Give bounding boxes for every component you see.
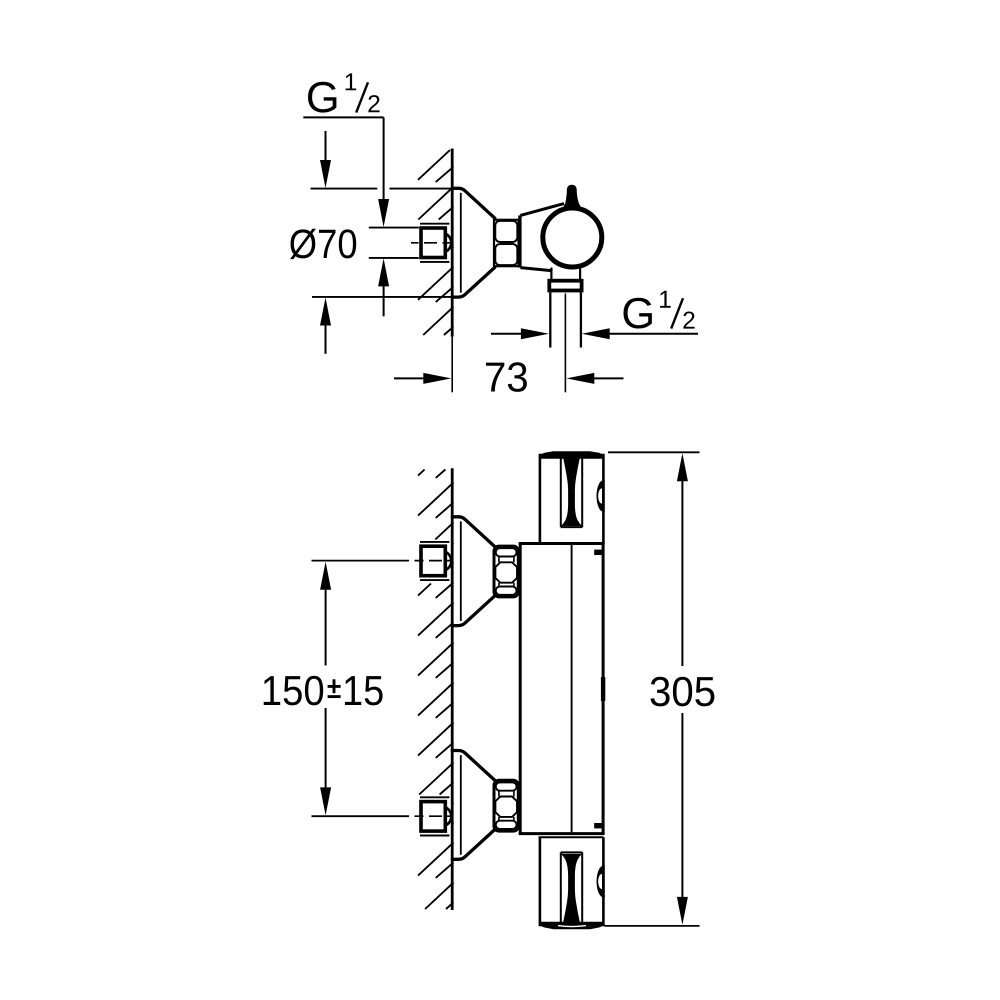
thermostat body right edge: [602, 544, 605, 834]
union fitting rounded end arc: [445, 234, 451, 252]
knob lever pin: [562, 185, 581, 208]
body front edge inner line: [571, 545, 573, 832]
lower union dashed centerline/extension: [312, 815, 410, 817]
dimension 150±15 arrow up: [320, 562, 331, 590]
thermostat body top edge: [519, 542, 605, 545]
hex nut (top view) outline: [494, 220, 519, 266]
upper union dashed centerline/extension: [312, 560, 410, 562]
union fitting rounded end arc: [445, 807, 451, 825]
dimension 305 extension bottom: [605, 925, 700, 927]
wall union square fitting body: [421, 546, 445, 576]
body screw mark upper: [594, 550, 602, 555]
union hex nut outline: [494, 780, 518, 831]
Ø70 arrow up: [320, 298, 331, 326]
text 73: [486, 362, 527, 392]
hex nut facet connectors: [498, 791, 500, 797]
hex nut facet upper: [495, 221, 517, 242]
union washer edge top: [420, 223, 449, 225]
escutcheon cone outline: [452, 188, 495, 297]
union extension line top: [369, 227, 419, 229]
text 150±15: [264, 676, 324, 706]
escutcheon cone outline: [452, 517, 495, 626]
wall edge line (bottom view): [451, 468, 454, 910]
dimension 73 right arrow: [566, 373, 594, 384]
G1/2 leader arrow down to union top: [378, 199, 389, 227]
thermostat body left edge: [519, 544, 522, 834]
wall edge thin extension down to 73-dimension: [451, 337, 453, 393]
flow handle top edge: [539, 836, 604, 838]
union washer edge bottom: [420, 261, 449, 263]
wall union square fitting body: [421, 802, 445, 832]
hex nut bottom chamfer band: [496, 587, 517, 595]
outlet neck right: [579, 268, 581, 280]
hex nut top chamfer band: [496, 782, 517, 790]
valve body top edge: [520, 204, 564, 216]
union washer edge bottom: [420, 835, 449, 837]
temperature handle groove bottom: [561, 526, 582, 528]
outlet flange: [549, 281, 581, 291]
dimension Ø70 extension line bottom: [312, 296, 452, 298]
label G1/2 (outlet thread): [624, 298, 652, 329]
dimension 305 arrow down: [677, 897, 688, 925]
flow handle cap highlight: [558, 926, 586, 927]
handle side safety button: [597, 480, 604, 512]
flow handle grip blade: [561, 854, 583, 922]
plus-minus sign: [333, 679, 336, 693]
flow handle groove left: [560, 852, 562, 922]
flow handle groove right: [581, 852, 583, 922]
outlet pipe left edge: [549, 292, 551, 347]
Ø70 arrow down: [325, 131, 327, 161]
flow handle cap (black): [540, 922, 604, 930]
temperature handle grip blade: [561, 458, 583, 526]
outlet pipe centerline: [564, 294, 566, 393]
hex nut facet connectors: [498, 557, 500, 563]
G1/2 label underline: [303, 116, 383, 118]
dimension 73 line left + arrow: [394, 377, 424, 379]
union washer edge top: [420, 541, 449, 543]
valve body bottom edge: [520, 268, 552, 271]
hex nut bottom chamfer band: [496, 821, 517, 829]
G1/2 union bottom arrow up: [378, 258, 389, 286]
body outlet mark middle: [601, 677, 605, 701]
outlet pipe right edge: [580, 292, 582, 347]
flow handle outline (bottom): [540, 837, 604, 925]
hex nut middle facet: [495, 797, 517, 817]
handle side safety button: [597, 866, 604, 898]
thermostat body bottom edge: [519, 832, 605, 835]
dimension 305 arrow up: [677, 453, 688, 481]
hex nut facet lower: [495, 244, 517, 265]
union fitting rounded end arc: [445, 552, 451, 570]
text 305: [651, 677, 715, 707]
escutcheon base inner edge: [460, 521, 462, 621]
union extension line bottom: [369, 257, 419, 259]
temperature handle groove right: [581, 458, 583, 527]
wall union square fitting body: [421, 228, 445, 258]
union washer edge bottom: [420, 579, 449, 581]
G1/2 leader vertical: [383, 117, 385, 199]
union washer edge top: [420, 796, 449, 798]
dimension 305 extension top: [608, 451, 700, 453]
body screw mark lower: [594, 823, 602, 828]
hex nut facet divider lines: [500, 242, 514, 244]
wall hatching (bottom view): [418, 470, 425, 476]
hex nut top chamfer band: [496, 548, 517, 556]
temperature handle outline (top): [540, 455, 604, 544]
temperature handle groove left: [560, 458, 562, 527]
escutcheon base inner edge: [460, 193, 462, 293]
union hex nut outline: [494, 546, 518, 597]
flow handle groove top: [561, 851, 582, 853]
valve body left edge / nut right edge: [518, 215, 521, 267]
dimension Ø70 extension line top: [311, 188, 378, 190]
wall edge line (top view): [451, 149, 454, 337]
wall hatching (top view): [418, 150, 450, 180]
escutcheon cone outline: [452, 751, 495, 860]
label G1/2 (wall union thread, top): [308, 82, 336, 113]
escutcheon base inner edge: [460, 755, 462, 855]
G1/2 outlet dimension arrows: [491, 333, 521, 335]
temperature handle cap (black): [540, 451, 604, 459]
control knob (top view circle): [543, 208, 602, 267]
dimension 150±15 arrow down: [325, 708, 327, 789]
outlet neck left: [550, 268, 552, 280]
hex nut middle facet: [495, 562, 517, 582]
union axis dashed centerline: [411, 242, 450, 244]
text Ø70: [290, 229, 356, 259]
